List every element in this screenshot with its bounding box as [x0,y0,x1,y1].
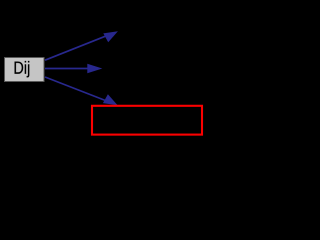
arrowhead 3 [103,94,118,105]
arrowhead 2 [87,64,102,73]
node Dij box [5,58,45,82]
wire arrow 2 shaft (horizontal) [45,68,89,70]
node Dij label [15,61,30,77]
arrowhead 1 [103,31,118,42]
wire arrow 3 shaft (down-right) [45,77,108,102]
wire arrow 1 shaft (up-right) [45,36,107,61]
red rectangle [92,106,202,135]
